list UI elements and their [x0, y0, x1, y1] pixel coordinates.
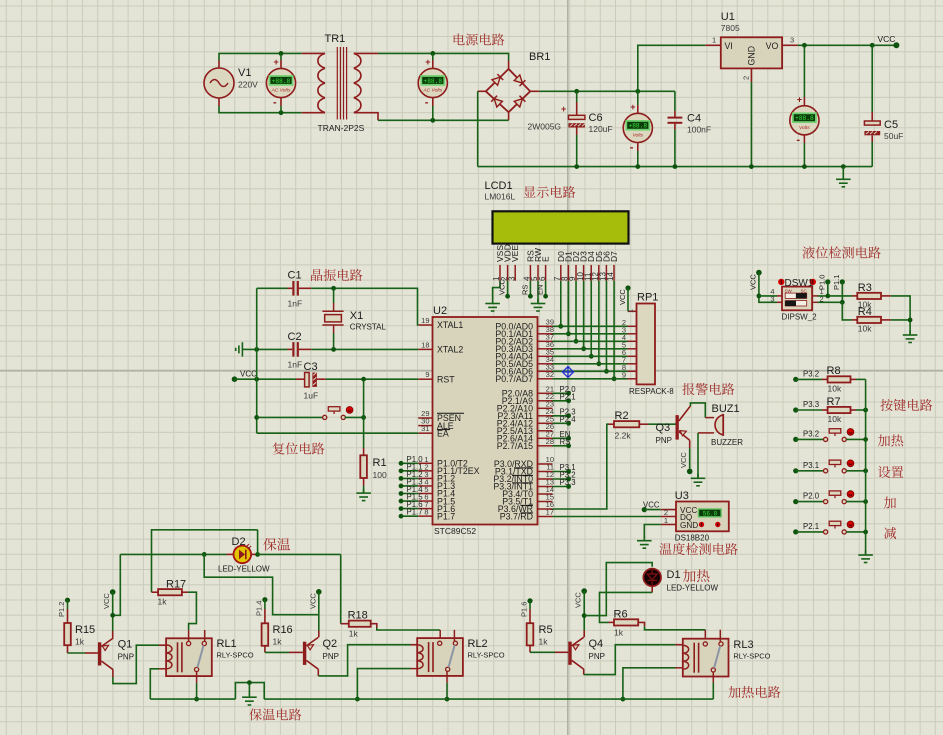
svg-text:RST: RST — [437, 374, 455, 384]
resistor R4 — [857, 317, 881, 323]
pin RP1 4 stub — [628, 340, 637, 342]
wire VM2 top to node — [432, 53, 434, 60]
svg-text:RL2: RL2 — [468, 638, 488, 650]
svg-text:晶振电路: 晶振电路 — [310, 265, 363, 284]
svg-text:P3.2: P3.2 — [803, 429, 819, 438]
wire TR1 secondary bottom to BR1 — [378, 119, 509, 121]
ground U3 — [637, 536, 652, 548]
svg-text:Q4: Q4 — [589, 638, 604, 650]
pin U2 P3.5 stub — [538, 501, 553, 503]
pin U2 P0.7 stub — [538, 378, 553, 380]
svg-text:-: - — [630, 141, 634, 153]
svg-text:Q1: Q1 — [118, 639, 133, 651]
pin R16 top lead — [264, 609, 266, 623]
pin C2 right lead — [299, 348, 311, 350]
wire RL2 common to rail — [446, 683, 448, 699]
pin C1 right lead — [299, 287, 311, 289]
svg-text:VCC: VCC — [574, 592, 583, 608]
svg-text:7805: 7805 — [721, 23, 740, 33]
ground LCD VSS — [485, 299, 500, 311]
wire Q3 emitter to VCC — [689, 448, 691, 471]
wire P3.7 to U3 DQ — [553, 516, 661, 518]
node P2.1 — [566, 398, 571, 403]
resistor R15 — [64, 623, 71, 645]
junction U1 input branch — [635, 89, 640, 94]
junction P1.0 pin1 — [825, 294, 830, 299]
svg-text:BUZ1: BUZ1 — [712, 403, 740, 415]
svg-text:V1: V1 — [238, 67, 251, 79]
svg-text:9: 9 — [425, 370, 429, 379]
pin RL2 common stub — [446, 671, 448, 683]
svg-text:1k: 1k — [75, 637, 85, 647]
pin RP1 2 stub — [628, 325, 637, 327]
pin C2 left lead — [288, 348, 293, 350]
svg-text:+88.8: +88.8 — [424, 78, 443, 85]
svg-text:P3.1: P3.1 — [803, 461, 819, 470]
wire BR1 output rail — [539, 90, 675, 92]
pin U2 P1.7 stub — [418, 515, 432, 517]
pin RL2 contact TL stub — [439, 630, 441, 641]
wire P0.3 to RP1 — [553, 348, 628, 350]
junction D4 P0.4 — [589, 354, 594, 359]
svg-text:DIPSW_2: DIPSW_2 — [782, 313, 818, 322]
wire VCC to C3 — [235, 378, 297, 380]
wire net P2.1 stub — [553, 400, 569, 402]
svg-text:31: 31 — [421, 424, 429, 433]
wire BR1 left to ground rail — [477, 91, 479, 166]
svg-text:VCC: VCC — [498, 279, 507, 295]
pin R18 left lead — [341, 623, 349, 625]
wire RL1 coil bottom to rail — [150, 669, 159, 699]
svg-text:报警电路: 报警电路 — [682, 379, 735, 398]
svg-text:D2: D2 — [232, 536, 246, 548]
pin R15 top lead — [67, 609, 69, 623]
node RP1 VCC terminal — [625, 285, 630, 290]
pin R5 top lead — [529, 609, 531, 623]
junction X1 C2 — [331, 347, 336, 352]
wire button 加 right — [846, 501, 865, 503]
svg-text:VCC: VCC — [240, 370, 257, 379]
DC voltmeter after bridge — [623, 102, 652, 153]
node P2.4 — [566, 421, 571, 426]
wire button 加热 left — [796, 438, 824, 440]
svg-text:9: 9 — [622, 370, 626, 379]
wire C6 bottom to rail — [576, 135, 578, 167]
svg-text:SW: SW — [785, 288, 793, 293]
svg-text:TRAN-2P2S: TRAN-2P2S — [318, 123, 365, 133]
pin LCD D1 stub — [567, 265, 569, 281]
wire EA row — [257, 432, 419, 434]
node P1.7 terminal — [399, 514, 404, 519]
svg-text:TR1: TR1 — [325, 33, 346, 45]
wire Q3 collector to buzzer — [690, 403, 705, 418]
svg-text:PNP: PNP — [656, 436, 672, 445]
wire D2 cathode to R18 — [340, 554, 342, 623]
wire R7 to rail — [856, 409, 866, 411]
svg-text:PNP: PNP — [589, 652, 605, 661]
svg-text:R8: R8 — [827, 365, 841, 377]
svg-text:10k: 10k — [828, 414, 842, 424]
transistor Q4 — [568, 637, 583, 669]
capacitor C3 — [305, 373, 317, 387]
svg-text:AC Volts: AC Volts — [271, 88, 291, 94]
node P2.0 — [566, 391, 571, 396]
wire C4 bottom to rail — [674, 130, 676, 167]
pin BR1 left stub — [478, 90, 486, 92]
ground DSW R3 R4 — [903, 331, 918, 343]
pin RP1 8 stub — [628, 370, 637, 372]
node P1.2 terminal — [65, 598, 70, 603]
pin C5 bottom lead red — [871, 135, 873, 142]
pin R2 right lead — [639, 423, 648, 425]
pin U2 P2.7 stub — [538, 445, 553, 447]
wire button 减 right — [846, 531, 865, 533]
button 减 — [824, 521, 854, 534]
svg-text:C3: C3 — [304, 361, 318, 373]
svg-text:STC89C52: STC89C52 — [434, 526, 476, 536]
wire D2 anode to Q1 VCC — [113, 554, 121, 615]
wire DSW pin2 net — [818, 301, 843, 303]
resistor pack RP1 body — [637, 304, 656, 385]
svg-text:R2: R2 — [615, 410, 629, 422]
microcontroller U2 STC89C52 body — [433, 317, 538, 525]
wire U3 GND to ground — [644, 525, 660, 539]
LED D1 dark — [643, 569, 661, 587]
pin TR1 secondary top stub — [354, 52, 378, 54]
svg-text:C1: C1 — [288, 270, 302, 282]
pin RP1 5 stub — [628, 348, 637, 350]
pin RL1 contact TL stub — [188, 630, 190, 641]
svg-text:3: 3 — [790, 36, 794, 45]
pin U2 P2.6 stub — [538, 437, 553, 439]
transistor Q3 — [676, 406, 691, 448]
regulator U1 7805 — [721, 37, 782, 68]
pin U2 XTAL1 stub — [418, 324, 432, 326]
node P1.0 terminal — [399, 461, 404, 466]
svg-text:Volts: Volts — [632, 133, 643, 139]
ground buttons — [858, 551, 873, 563]
pin R17 left lead — [152, 591, 159, 593]
pin VM3 top lead — [637, 105, 639, 113]
wire VM3 bottom to rail — [637, 151, 639, 167]
wire R1 to ground — [363, 486, 365, 493]
junction reset button left — [254, 415, 259, 420]
wire R4 to vertical — [891, 319, 910, 321]
node P1.2 terminal — [399, 476, 404, 481]
svg-text:+: + — [561, 104, 566, 114]
svg-text:C4: C4 — [687, 113, 701, 125]
pin U3 VCC stub — [661, 509, 676, 511]
pin RL3 coil top lead — [676, 644, 683, 646]
svg-text:复位电路: 复位电路 — [272, 439, 325, 458]
wire ground stub power rail — [842, 167, 844, 176]
pin LCD RS stub — [529, 265, 531, 281]
svg-text:1k: 1k — [273, 637, 283, 647]
wire D2 cathode loop to R17 — [257, 530, 259, 555]
wire LCD D0 to P0.0 — [560, 281, 562, 327]
wire P1.6 to R5 — [529, 601, 531, 609]
pin RL3 common stub — [712, 672, 714, 683]
wire R16 to Q2 base — [265, 651, 289, 653]
wire bottom rail bump — [235, 683, 264, 700]
node P2.0 button terminal — [793, 499, 798, 504]
wire button 加 left — [796, 501, 824, 503]
pin U2 P1.0 stub — [418, 462, 432, 464]
pin LCD D0 stub — [560, 265, 562, 281]
pin VM4 bottom lead — [803, 135, 805, 143]
svg-text:P2.4: P2.4 — [560, 415, 577, 424]
pin LCD RW stub — [537, 265, 539, 281]
svg-text:RP1: RP1 — [637, 292, 658, 304]
pin LCD VEE stub — [514, 265, 516, 281]
pin C3 right lead — [317, 378, 326, 380]
node P3.2 button terminal — [793, 437, 798, 442]
wire net P3.3 stub — [553, 486, 569, 488]
svg-text:PNP: PNP — [323, 652, 339, 661]
wire X1 bottom lead — [333, 333, 335, 349]
resistor R5 — [527, 623, 534, 645]
pin RP1 3 stub — [628, 333, 637, 335]
wire DSW pin1 net — [818, 295, 852, 297]
pin U2 P0.4 stub — [538, 355, 553, 357]
svg-text:EN: EN — [536, 285, 545, 295]
junction Q1 VCC branch — [110, 613, 115, 618]
svg-text:10k: 10k — [828, 384, 842, 394]
crystal X1 — [322, 303, 343, 333]
ground LCD RW — [531, 299, 546, 311]
wire VCC to Q4 emitter — [583, 591, 585, 630]
pin RL3 coil bottom lead — [676, 667, 683, 669]
svg-text:220V: 220V — [238, 80, 258, 90]
junction C3 left branch — [254, 377, 259, 382]
svg-text:10k: 10k — [858, 324, 872, 334]
wire P1.1 drop — [841, 282, 843, 302]
svg-text:加热: 加热 — [683, 565, 711, 585]
junction rail button 加热 — [863, 437, 868, 442]
pin LCD D5 stub — [598, 265, 600, 281]
junction D0 P0.0 — [558, 324, 563, 329]
pin LCD D2 stub — [575, 265, 577, 281]
svg-text:LED-YELLOW: LED-YELLOW — [218, 565, 270, 574]
svg-text:+88.8: +88.8 — [795, 115, 814, 122]
pin U2 P2.1 stub — [538, 400, 553, 402]
wire VCC to Q2 emitter — [318, 592, 320, 631]
junction rail ground stub — [841, 164, 846, 169]
svg-text:-: - — [425, 97, 429, 109]
svg-text:RS: RS — [520, 285, 529, 295]
wire V1 bottom to TR1 primary bottom — [219, 106, 302, 113]
pin C1 left lead — [288, 287, 293, 289]
junction rail RL2 coil — [355, 697, 360, 702]
svg-text:R16: R16 — [273, 624, 293, 636]
node P2.1 button terminal — [793, 529, 798, 534]
junction VM1 top — [279, 51, 284, 56]
pin U2 PSEN stub — [418, 417, 432, 419]
svg-text:2W005G: 2W005G — [528, 122, 562, 132]
svg-text:C2: C2 — [288, 331, 302, 343]
svg-text:C6: C6 — [589, 112, 603, 124]
svg-text:BR1: BR1 — [529, 51, 550, 63]
resistor R3 — [857, 293, 881, 299]
wire P0.7 to RP1 — [553, 378, 628, 380]
wire P3.6 to R2 — [553, 424, 609, 509]
junction rail button 减 — [863, 530, 868, 535]
wire P1.4 net — [401, 493, 418, 495]
wire C5 top lead — [871, 45, 873, 112]
svg-text:100: 100 — [373, 470, 387, 480]
svg-text:E: E — [541, 256, 551, 262]
wire C5 bottom to rail — [871, 142, 873, 167]
svg-text:VCC: VCC — [643, 500, 660, 509]
pin U2 P2.5 stub — [538, 430, 553, 432]
wire RL3 coil bottom to rail — [623, 668, 676, 699]
wire C2 to XTAL2 — [311, 348, 418, 350]
pin R17 right lead — [182, 591, 188, 593]
junction D2 anode — [202, 552, 207, 557]
wire buzzer bottom to ground — [697, 433, 699, 478]
svg-text:P3.2: P3.2 — [803, 369, 819, 378]
wire P0.0 to RP1 — [553, 325, 628, 327]
wire C4 top lead — [674, 91, 676, 111]
junction D7 P0.7 — [612, 376, 617, 381]
svg-text:LED-YELLOW: LED-YELLOW — [667, 584, 719, 593]
node VCC terminal Q2 — [316, 589, 322, 595]
wire LCD D6 to P0.6 — [605, 281, 607, 372]
junction rail VM3 — [635, 164, 640, 169]
wire net P3.2 stub — [553, 478, 569, 480]
junction C1 X1 — [331, 286, 336, 291]
pin U2 P1.1 stub — [418, 470, 432, 472]
wire RL1 common to rail — [196, 683, 198, 699]
junction D5 P0.5 — [596, 361, 601, 366]
svg-text:100nF: 100nF — [687, 125, 711, 135]
pin LCD D6 stub — [605, 265, 607, 281]
wire net EN stub — [553, 437, 569, 439]
svg-text:P3.3: P3.3 — [803, 400, 819, 409]
svg-text:19: 19 — [421, 316, 429, 325]
svg-text:加热: 加热 — [878, 430, 904, 449]
capacitor C4 — [668, 118, 683, 123]
resistor R7 — [828, 407, 851, 413]
pin LCD VSS stub — [499, 265, 501, 281]
LCD screen LCD1 — [493, 211, 629, 243]
wire LCD D7 to P0.7 — [613, 281, 615, 379]
wire LCD E net stub — [545, 281, 547, 296]
junction rail button 加 — [863, 499, 868, 504]
svg-text:VCC: VCC — [102, 593, 111, 609]
svg-text:P1.2: P1.2 — [57, 602, 66, 617]
pin U2 P3.4 stub — [538, 493, 553, 495]
svg-text:VCC: VCC — [749, 274, 758, 290]
pin LCD D4 stub — [590, 265, 592, 281]
node P1.6 terminal — [399, 506, 404, 511]
wire R17 to RL1 contact — [188, 592, 197, 630]
button 加热 — [824, 429, 854, 442]
pin R4 right lead — [881, 319, 891, 321]
relay RL1 — [166, 638, 212, 676]
junction VM2 bottom — [430, 118, 435, 123]
wire VCC to DSW pins — [759, 273, 777, 303]
wire P1.5 net — [401, 500, 418, 502]
pin RP1 6 stub — [628, 355, 637, 357]
node P1.0 terminal — [825, 279, 830, 284]
node VCC terminal — [893, 42, 899, 48]
pin U2 P0.3 stub — [538, 348, 553, 350]
reset button — [323, 407, 353, 420]
pin DSW1 1 stub — [812, 295, 817, 297]
node EN net — [543, 294, 548, 299]
svg-text:P0.7/AD7: P0.7/AD7 — [495, 374, 533, 384]
wire LCD VDD net stub — [507, 281, 509, 296]
pin Q4 collector lead — [583, 669, 585, 675]
pin D1 bottom lead — [651, 586, 653, 592]
pin R6 right lead — [638, 622, 644, 626]
junction rail VM4 — [802, 164, 807, 169]
pin C5 top lead red — [871, 112, 873, 121]
node RS — [566, 443, 571, 448]
bridge rectifier BR1 — [486, 69, 530, 112]
button 加 — [824, 491, 854, 504]
wire VM3 top to node — [637, 91, 639, 105]
AC voltmeter on primary — [266, 57, 295, 109]
svg-text:Q2: Q2 — [323, 638, 338, 650]
svg-text:P1.7: P1.7 — [407, 508, 423, 517]
node VCC terminal Q1 — [110, 589, 116, 595]
wire U3 VCC net — [644, 509, 660, 511]
pin VM1 bottom lead — [280, 98, 282, 106]
svg-text:R1: R1 — [373, 457, 387, 469]
wire P1.2 net — [401, 477, 418, 479]
wire V1 top to TR1 primary top — [219, 53, 302, 60]
junction P1.1 pin2 — [840, 300, 845, 305]
svg-text:120uF: 120uF — [589, 124, 613, 134]
svg-text:加热电路: 加热电路 — [728, 682, 781, 701]
overline EA — [437, 429, 450, 431]
wire button ground rail — [865, 379, 867, 554]
pin R15 bottom lead — [67, 645, 69, 653]
pin R8 right lead — [851, 378, 857, 380]
pin U2 P1.6 stub — [418, 508, 432, 510]
wire P1.1 net — [401, 470, 418, 472]
pin R18 right lead — [371, 624, 377, 628]
pin U2 P0.0 stub — [538, 325, 553, 327]
junction Q4 VCC branch — [582, 613, 587, 618]
transformer TR1 — [318, 47, 361, 120]
wire C2 left — [246, 348, 288, 350]
pin U1 GND stub — [750, 68, 752, 82]
pin TR1 primary bottom stub — [302, 112, 325, 114]
wire LCD D3 to P0.3 — [583, 281, 585, 349]
node VDD to VCC — [505, 294, 510, 299]
svg-text:R7: R7 — [827, 396, 841, 408]
wire button left — [257, 416, 323, 418]
wire net P2.3 stub — [553, 415, 569, 417]
svg-text:P1.7: P1.7 — [437, 511, 455, 521]
svg-text:2.2k: 2.2k — [615, 431, 632, 441]
svg-text:1nF: 1nF — [288, 299, 303, 309]
svg-text:RL3: RL3 — [733, 639, 753, 651]
junction VM2 top — [430, 51, 435, 56]
pin VM1 top lead — [280, 60, 282, 68]
node P3.2 left terminal R8 — [793, 377, 798, 382]
wire P1.3 net — [401, 485, 418, 487]
junction C3 right branch — [361, 377, 366, 382]
svg-text:RS: RS — [560, 437, 571, 446]
wire LCD RW to ground — [537, 281, 539, 303]
pin TR1 secondary bottom stub — [354, 113, 378, 121]
pin VM4 top lead — [803, 97, 805, 106]
wire button 减 left — [796, 531, 824, 533]
